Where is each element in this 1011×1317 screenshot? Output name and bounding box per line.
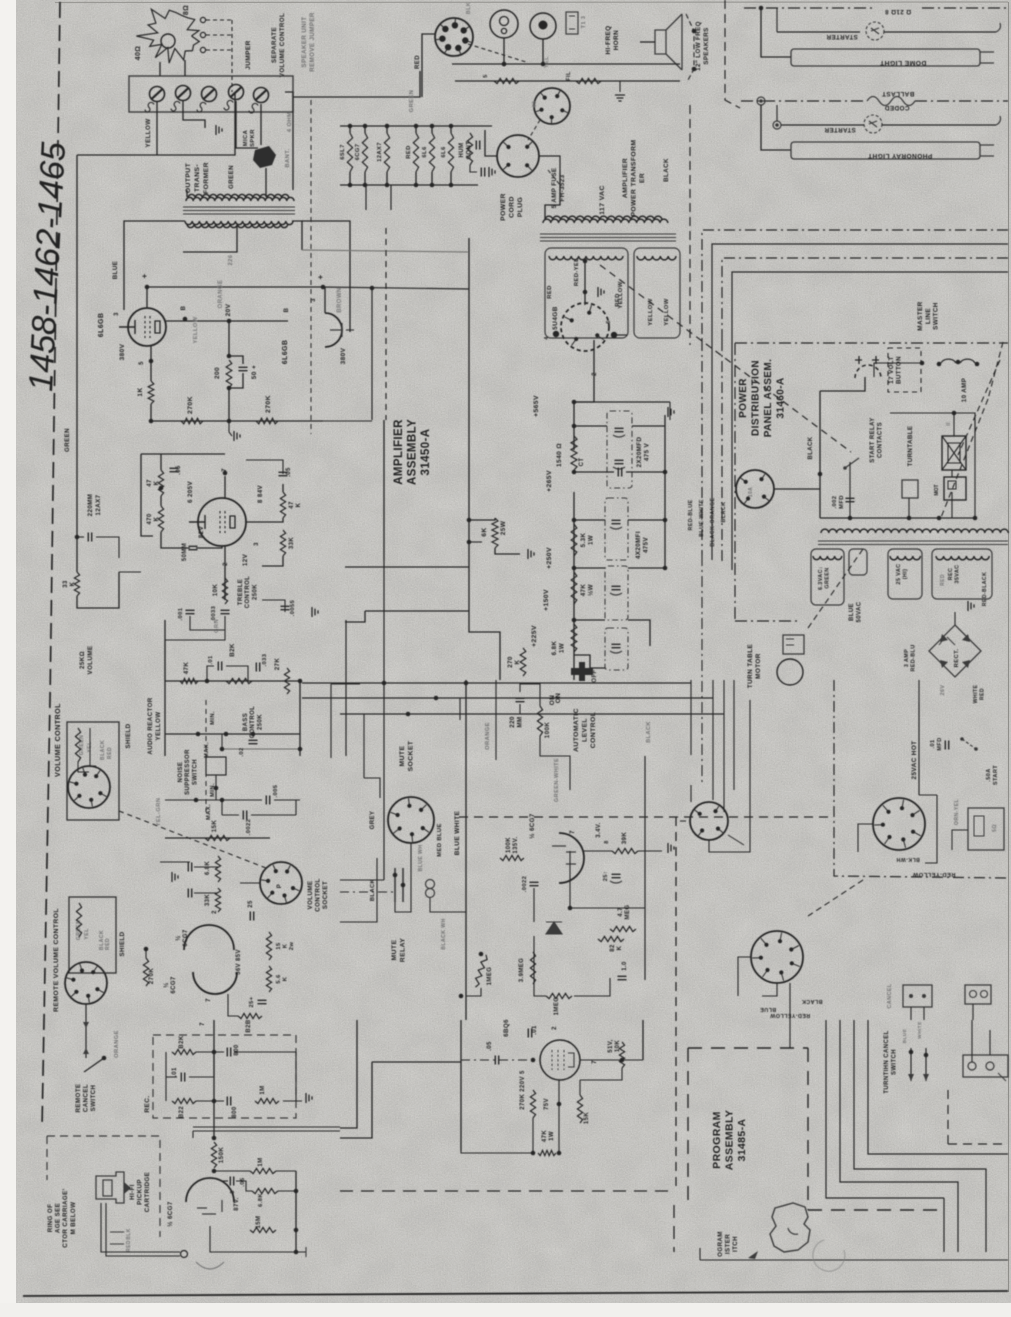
lamp riser 2	[761, 105, 791, 150]
output transformer secondary winding	[185, 221, 293, 225]
output transformer core	[183, 207, 295, 214]
winding box 35VAC	[932, 549, 992, 599]
svg-text:M BELOW: M BELOW	[70, 1202, 77, 1235]
preamp dot	[144, 947, 149, 952]
output tube V2 6L6GB	[325, 313, 342, 347]
contact dot a	[393, 873, 398, 878]
svg-text:STARTER: STARTER	[826, 33, 858, 40]
svg-text:YEL: YEL	[84, 928, 90, 940]
svg-text:HI-FREQ: HI-FREQ	[605, 25, 612, 54]
svg-text:.0055: .0055	[290, 599, 296, 616]
phono tube internals	[197, 1200, 222, 1214]
svg-text:POWER: POWER	[500, 193, 507, 221]
heater element 6L6	[448, 133, 453, 172]
pi cathode	[196, 546, 222, 548]
bass right rail	[299, 681, 301, 756]
svg-text:В2K: В2K	[229, 643, 236, 657]
bus dot c1	[406, 712, 411, 717]
svg-text:ORANGE: ORANGE	[485, 722, 491, 750]
msw dot a	[920, 361, 925, 366]
cap 4a curve	[610, 651, 622, 653]
heater lead b 3	[386, 172, 388, 185]
svg-text:75V: 75V	[544, 1098, 550, 1110]
terminal screw 3	[202, 87, 217, 102]
heater lead b 5	[431, 172, 433, 185]
secondary center wire	[584, 258, 586, 305]
long vertical 384	[383, 560, 385, 880]
volume control socket	[68, 766, 110, 808]
dropping resistor fil2	[576, 78, 601, 83]
bass dot b	[298, 679, 303, 684]
svg-text:K: K	[154, 516, 160, 521]
svg-text:380V: 380V	[119, 343, 126, 360]
resistor 1M rec	[255, 1098, 279, 1103]
rec wiring c	[189, 1052, 214, 1077]
junction 250	[572, 566, 577, 571]
motor nest 3	[712, 680, 714, 800]
svg-text:AGE SEE: AGE SEE	[55, 1203, 62, 1233]
cap .1 b	[188, 889, 191, 898]
V2 dashed boundary	[310, 100, 312, 434]
jumper dashed link 1	[206, 19, 232, 21]
svg-text:GREEN: GREEN	[79, 735, 85, 755]
relay wires d	[974, 420, 976, 518]
svg-text:47K: 47K	[580, 584, 587, 597]
svg-text:(HI): (HI)	[903, 569, 909, 580]
aux socket cross	[680, 820, 686, 822]
bleeder bottom	[495, 548, 520, 554]
terminal screw 1	[150, 87, 165, 102]
rec wiring b	[166, 1076, 177, 1078]
junction grid B	[183, 317, 188, 322]
svg-text:.05: .05	[286, 467, 292, 477]
svg-text:2X20MFD: 2X20MFD	[636, 437, 643, 468]
heater lead 6	[450, 126, 452, 133]
svg-text:15K: 15K	[584, 1112, 590, 1124]
filter rung 4	[574, 619, 605, 621]
svg-text:.50A: .50A	[986, 768, 992, 781]
cap .05 right	[279, 472, 288, 475]
mute wiring a	[364, 778, 380, 798]
svg-text:117 VAC: 117 VAC	[599, 185, 606, 215]
svg-text:SWITCH: SWITCH	[891, 1049, 897, 1075]
svg-text:6K: 6K	[481, 527, 488, 536]
alc wiring h	[570, 851, 645, 908]
svg-text:TURNTABLE: TURNTABLE	[907, 426, 914, 467]
alc wiring top2	[519, 704, 521, 714]
hum pot arm	[470, 165, 477, 172]
svg-text:MUTE: MUTE	[391, 940, 398, 961]
preamp top wires	[160, 861, 190, 863]
cap .0022 alc	[530, 882, 539, 885]
svg-text:39K: 39K	[621, 832, 628, 845]
svg-text:226: 226	[228, 254, 234, 265]
output tube V1 6L6GB	[128, 308, 166, 346]
bass faint rail	[222, 748, 300, 750]
tube 12AX7	[198, 498, 246, 546]
wire right side of strip	[285, 92, 293, 190]
resistor 1MEG slant	[473, 954, 488, 988]
boundary step	[345, 611, 365, 622]
ballast wire right	[915, 100, 1008, 102]
winding 35vac coil	[936, 556, 989, 560]
resistor 27K	[284, 668, 289, 694]
parallel wires right	[193, 1126, 340, 1128]
filter cap 2a	[612, 520, 621, 523]
svg-text:56V 85V: 56V 85V	[236, 949, 242, 975]
rect bridge diamond	[929, 625, 981, 677]
output transformer secondary winding row2	[187, 224, 288, 228]
pa nest wire 2	[840, 1020, 958, 1252]
resistor 22K bass	[226, 678, 252, 683]
svg-text:150K: 150K	[218, 1147, 225, 1164]
pdp dot c	[907, 516, 912, 521]
lower left corner wires b	[340, 1062, 372, 1138]
svg-text:.005: .005	[273, 784, 279, 797]
plug lead right	[539, 156, 560, 172]
speaker dashed border b	[689, 105, 691, 345]
resistor 47K pi	[158, 470, 163, 496]
cap .002 MFD	[846, 498, 855, 501]
alc boundary vertical	[465, 680, 467, 1020]
pdp boundary left	[734, 343, 736, 621]
starter wire 2b	[882, 124, 996, 126]
svg-text:200: 200	[214, 367, 221, 379]
svg-text:BLACK: BLACK	[100, 740, 106, 760]
socket left wire	[422, 34, 436, 97]
svg-text:FORMER: FORMER	[203, 162, 210, 194]
svg-text:SWITCH: SWITCH	[90, 1084, 97, 1111]
svg-text:BLUE: BLUE	[760, 1006, 776, 1012]
remote cancel lever	[84, 1058, 104, 1072]
heater junction bottom 4	[414, 183, 419, 188]
tone bus vertical	[164, 620, 166, 756]
svg-text:1MEG: 1MEG	[554, 997, 560, 1016]
svg-text:SOCKET: SOCKET	[322, 881, 329, 909]
resistor 270K alc	[520, 648, 526, 676]
starter hook 2	[996, 116, 1001, 125]
bus down 4	[731, 340, 733, 570]
winding 25vac coil	[890, 556, 920, 560]
svg-text:K: K	[296, 502, 302, 507]
svg-text:4X20MFІ: 4X20MFІ	[635, 531, 642, 559]
program socket leads a	[738, 957, 751, 996]
svg-text:RED: RED	[107, 747, 113, 759]
relay top feed	[890, 413, 954, 436]
alc ground	[668, 843, 674, 853]
phono bottom wire	[210, 1226, 296, 1252]
preamp tube 6CG7 b	[193, 972, 237, 994]
cap .033	[256, 663, 259, 672]
pa boundary bottom	[808, 1209, 945, 1211]
pdp socket 4pin	[736, 470, 774, 508]
svg-text:3 AMP: 3 AMP	[904, 649, 910, 667]
svg-text:7: 7	[570, 830, 576, 834]
svg-text:PANEL ASSEM.: PANEL ASSEM.	[763, 359, 774, 438]
dashdot 05 wire	[461, 1059, 533, 1061]
filter rung 1b	[632, 425, 665, 427]
cam ghost arc	[813, 1240, 845, 1271]
svg-text:40Ω: 40Ω	[135, 46, 142, 61]
heater lead b 2	[364, 172, 366, 185]
svg-text:.02: .02	[239, 747, 245, 756]
phono dot c	[294, 1250, 299, 1255]
lamp junction 1	[759, 6, 764, 11]
svg-text:BLK-WH: BLK-WH	[896, 856, 919, 862]
phono dot b	[294, 1228, 299, 1233]
svg-text:DOME LIGHT: DOME LIGHT	[879, 59, 926, 66]
sec dot b	[583, 290, 588, 295]
svg-text:800: 800	[234, 1044, 240, 1055]
svg-text:100K: 100K	[506, 837, 512, 853]
cap 3a curve	[610, 593, 622, 595]
starter hook 1	[996, 23, 1001, 32]
bus down 1	[701, 340, 703, 555]
resistor 15K 2W	[266, 932, 271, 960]
svg-text:ER: ER	[639, 173, 646, 183]
pa socket wires down	[789, 983, 791, 1048]
svg-text:12AX7: 12AX7	[95, 494, 102, 515]
bus down 2	[711, 340, 713, 560]
filter cap box 1	[607, 411, 632, 488]
svg-text:ISTER: ISTER	[725, 1234, 732, 1254]
bleeder top dot	[467, 518, 472, 523]
svg-text:CT: CT	[579, 458, 585, 467]
svg-text:SPEAKERS: SPEAKERS	[703, 27, 710, 64]
svg-text:CORD: CORD	[509, 196, 516, 218]
svg-text:.01: .01	[172, 1067, 178, 1077]
bus crossing b2	[459, 698, 461, 720]
resistor bus	[455, 80, 680, 82]
power transformer primary	[543, 219, 668, 223]
aux socket 4pin	[690, 802, 728, 840]
pa bottom exits b	[699, 1248, 701, 1260]
svg-text:STARTER: STARTER	[824, 126, 856, 133]
svg-text:6L6: 6L6	[441, 146, 447, 158]
pa nest wire 4	[868, 1020, 1008, 1154]
wire blob down to transformer	[265, 168, 267, 197]
heater junction top 3	[385, 124, 390, 129]
program socket leads b	[762, 983, 777, 996]
low wiring a	[580, 1059, 643, 1061]
sec center tap ground	[598, 287, 604, 297]
pilot lamp drop	[542, 39, 544, 64]
alc dot b	[459, 994, 464, 999]
bus nest 4	[732, 272, 1008, 340]
orange wire	[495, 680, 497, 760]
contact dot b	[401, 883, 406, 888]
tc arrow wire 2	[925, 1048, 927, 1081]
speaker feed dot b	[692, 67, 697, 72]
svg-text:BALLAST: BALLAST	[882, 90, 915, 97]
winding box 25VAC	[888, 549, 922, 599]
svg-text:CONTROL: CONTROL	[315, 878, 322, 911]
heater junction top 2	[363, 124, 368, 129]
speaker voice-coil scribble	[136, 9, 199, 63]
lever dot	[102, 1056, 107, 1061]
heater junction bottom 6	[449, 183, 454, 188]
msw dot d	[956, 360, 961, 365]
svg-text:MED BLUE: MED BLUE	[437, 823, 443, 856]
svg-text:6.8K: 6.8K	[551, 641, 558, 656]
svg-text:BANT.: BANT.	[285, 148, 291, 167]
svg-text:REC: REC	[948, 568, 954, 581]
cap .001	[186, 610, 195, 613]
volume control socket P	[260, 862, 302, 904]
filter rung 5	[574, 655, 605, 668]
rec wiring e	[234, 1052, 296, 1101]
svg-text:5.3K: 5.3K	[580, 533, 587, 548]
relay wires	[908, 498, 910, 518]
svg-text:CONTROL: CONTROL	[245, 576, 251, 608]
svg-text:8: 8	[604, 840, 610, 843]
ns bottom bus b	[274, 799, 300, 801]
start relay box	[968, 808, 1004, 850]
pickup connector	[181, 1251, 188, 1258]
svg-text:YELLOW: YELLOW	[193, 316, 199, 343]
input res wire	[77, 572, 119, 608]
lamp junction circle	[757, 97, 765, 105]
svg-text:LEVEL: LEVEL	[581, 718, 588, 742]
svg-text:RED: RED	[126, 1240, 132, 1252]
pdp dashed diag 3	[808, 549, 863, 628]
heater lead b 6	[450, 172, 452, 185]
svg-text:135V.: 135V.	[513, 836, 519, 853]
svg-text:4: 4	[544, 336, 550, 340]
dome light tube	[791, 49, 980, 66]
V1 plate riser	[146, 287, 148, 308]
turntable motor circle	[777, 659, 803, 685]
svg-text:RED: RED	[940, 574, 946, 586]
pickup stub b	[110, 1243, 124, 1245]
low dot a	[531, 1058, 536, 1063]
resistor 100K grid	[500, 855, 524, 860]
svg-text:GREY: GREY	[370, 811, 376, 830]
pdp transformer core	[818, 541, 1008, 545]
vc frame corner	[331, 683, 360, 685]
lamp junction circle 2	[773, 121, 781, 129]
resistor 470K	[158, 506, 163, 532]
svg-text:250K: 250K	[257, 714, 263, 730]
hv line right	[669, 402, 671, 420]
speaker wire 2	[184, 60, 186, 76]
dome left feed	[761, 56, 791, 58]
svg-text:4 OHM: 4 OHM	[287, 112, 293, 132]
low dot b	[620, 1058, 625, 1063]
bus crossing a	[302, 682, 691, 684]
alc wiring f	[533, 888, 535, 922]
resistor 47K 2W	[571, 572, 577, 604]
25vac wire	[918, 703, 920, 795]
phono bot rail ext	[296, 1251, 306, 1253]
resistor 33K input	[74, 572, 79, 596]
hum cap	[481, 168, 484, 177]
svg-text:1.0: 1.0	[622, 961, 628, 971]
heater lead b 1	[349, 172, 351, 185]
parallel wires right b	[192, 1131, 194, 1138]
pdp dashed diagonal	[940, 399, 988, 520]
B+ rail extension	[323, 287, 469, 289]
svg-text:50MM: 50MM	[182, 543, 188, 561]
grid box left	[141, 454, 153, 536]
svg-text:6.8K: 6.8K	[258, 1193, 264, 1207]
svg-text:MIN.: MIN.	[210, 711, 216, 725]
pdp bottom bus	[820, 517, 975, 519]
pi wiring a	[160, 496, 162, 506]
svg-text:K: K	[617, 945, 623, 950]
svg-text:MICA: MICA	[243, 129, 249, 146]
long wire 384 to vc	[340, 879, 384, 881]
mute wiring d	[430, 898, 466, 912]
cap 220MM	[88, 533, 91, 542]
program register cam	[770, 1203, 810, 1252]
alc plate wire	[584, 850, 612, 852]
svg-text:475V: 475V	[643, 537, 650, 554]
vc frame corner b	[330, 684, 332, 758]
junction bus left	[149, 419, 154, 424]
sec dot a	[583, 259, 588, 264]
svg-text:25 VAC: 25 VAC	[896, 564, 902, 585]
phonoray light tube	[791, 142, 980, 159]
svg-text:25VAC HOT: 25VAC HOT	[911, 741, 918, 780]
heater lead 4	[415, 126, 417, 133]
cap .1 a	[188, 863, 191, 872]
heater junction bottom 3	[385, 183, 390, 188]
program socket wiring	[858, 824, 873, 852]
svg-text:RED: RED	[415, 55, 421, 69]
svg-text:33K: 33K	[289, 537, 295, 549]
svg-text:BROWN: BROWN	[337, 287, 343, 312]
rung2 dot r	[663, 518, 668, 523]
svg-text:ORANGE: ORANGE	[114, 1030, 120, 1058]
resistor 82K	[598, 936, 624, 941]
label box BLACK	[0, 0, 1, 1]
svg-text:PLUG: PLUG	[517, 197, 524, 217]
ns sub drop b	[295, 800, 297, 815]
svg-text:6CG7: 6CG7	[183, 929, 189, 947]
resistor 6.8K 1W	[571, 624, 577, 652]
remote volume box	[69, 897, 116, 973]
preamp wiring a	[194, 866, 218, 868]
ground near strip	[216, 125, 222, 135]
low bottom wire	[461, 1151, 533, 1153]
cap 800 b	[227, 1097, 230, 1106]
turntable motor box	[783, 635, 804, 654]
rect ground	[968, 601, 974, 611]
filter ground top	[668, 407, 674, 417]
starter wire 1	[777, 31, 860, 33]
hum ground	[489, 167, 495, 177]
pdp boundary top	[735, 342, 1008, 344]
svg-text:REMOTE VOLUME CONTROL: REMOTE VOLUME CONTROL	[53, 908, 60, 1012]
svg-text:82V: 82V	[198, 525, 205, 538]
svg-text:20V: 20V	[225, 303, 232, 316]
heater return stub b	[390, 185, 392, 210]
resistor 3.9MEG	[530, 952, 535, 984]
svg-text:SWITCH: SWITCH	[192, 759, 198, 785]
svg-text:2: 2	[212, 910, 218, 914]
svg-text:1K: 1K	[137, 387, 144, 396]
heater lead b 4	[415, 172, 417, 185]
svg-text:6CG7: 6CG7	[355, 144, 361, 161]
low wiring c	[579, 1080, 581, 1095]
bleeder 6K 25W	[492, 518, 498, 548]
svg-text:6L6GB: 6L6GB	[98, 313, 105, 338]
svg-text:RED-BLACK: RED-BLACK	[982, 572, 988, 606]
lamp riser 1b	[776, 8, 778, 32]
ns sub drop a	[221, 800, 223, 815]
cap01 wires	[207, 666, 214, 681]
